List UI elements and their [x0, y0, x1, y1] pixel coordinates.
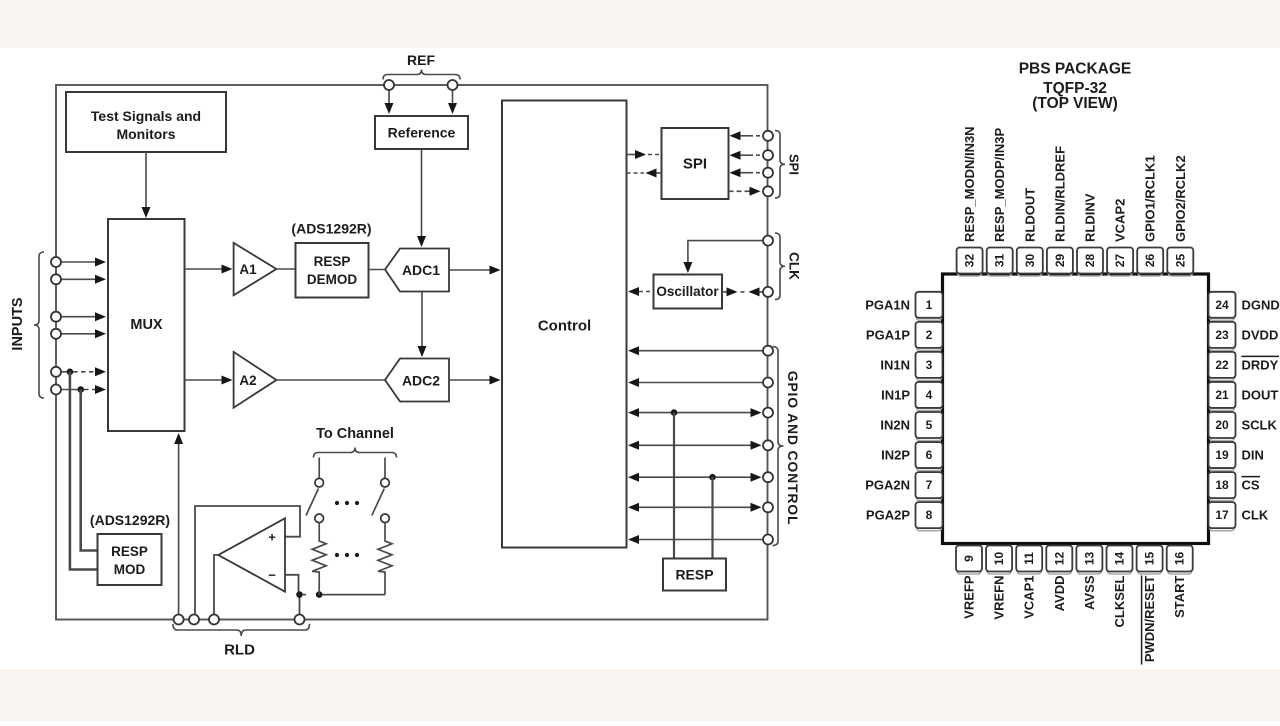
RLD pin circle 3	[209, 615, 219, 625]
pin 28 RLDINV	[1077, 193, 1103, 276]
svg-text:DRDY: DRDY	[1242, 357, 1279, 372]
svg-text:MUX: MUX	[130, 317, 163, 333]
svg-text:5: 5	[926, 418, 933, 432]
junction dot GPIO row5	[709, 474, 716, 481]
junction dot GPIO row3	[671, 409, 678, 416]
svg-text:24: 24	[1215, 298, 1229, 312]
pin 4 IN1P	[881, 382, 942, 411]
wire GPIO/control row 1	[628, 346, 773, 356]
input wire 4 into MUX	[51, 329, 106, 339]
svg-text:2: 2	[926, 328, 933, 342]
block: RESP DEMOD	[296, 243, 369, 298]
input wire 1 into MUX	[51, 257, 106, 267]
wire GPIO/control row 4	[628, 440, 773, 450]
svg-text:RLDIN/RLDREF: RLDIN/RLDREF	[1052, 146, 1067, 242]
svg-text:28: 28	[1083, 254, 1097, 268]
switch S1 (left)	[306, 458, 324, 539]
wire RLD pin up to MUX with arrow	[174, 433, 183, 615]
svg-text:8: 8	[926, 508, 933, 522]
REF pin circle right	[448, 80, 458, 114]
svg-text:12: 12	[1052, 552, 1066, 566]
ellipsis between switches	[335, 501, 339, 505]
svg-text:1: 1	[926, 298, 933, 312]
svg-text:22: 22	[1215, 358, 1229, 372]
svg-text:A1: A1	[239, 262, 257, 277]
To Channel brace	[314, 448, 397, 458]
svg-text:MOD: MOD	[114, 562, 146, 577]
block: MUX	[108, 219, 185, 431]
pin 31 RESP_MODP/IN3P	[987, 128, 1013, 276]
svg-text:VREFN: VREFN	[992, 576, 1007, 620]
svg-text:IN2N: IN2N	[880, 418, 910, 433]
pin 32 RESP_MODN/IN3N	[957, 126, 983, 276]
svg-text:RESP: RESP	[314, 254, 351, 269]
ADC1 converter	[385, 249, 449, 292]
svg-text:RESP: RESP	[675, 567, 713, 583]
svg-text:PGA1N: PGA1N	[865, 297, 910, 312]
block: RESP	[663, 559, 726, 591]
svg-text:ADC2: ADC2	[402, 373, 440, 389]
svg-text:AVDD: AVDD	[1052, 576, 1067, 612]
svg-text:PWDN/RESET: PWDN/RESET	[1142, 575, 1157, 662]
switch S2 (right)	[372, 458, 390, 539]
RLD pin circle 4	[295, 615, 305, 625]
pin 26 GPIO1/RCLK1	[1137, 155, 1163, 276]
svg-text:(TOP VIEW): (TOP VIEW)	[1032, 95, 1118, 112]
pin 5 IN2N	[880, 412, 942, 441]
svg-text:A2: A2	[239, 373, 256, 388]
wire CLK pin to Oscillator with arrow	[683, 236, 773, 273]
wire inverting node down to RLD pin	[299, 595, 301, 615]
pin 6 IN2P	[881, 442, 942, 471]
input wire 5 (dashed, junction) into MUX	[51, 367, 106, 377]
pin 8 PGA2P	[866, 502, 943, 531]
svg-text:AVSS: AVSS	[1082, 575, 1097, 610]
brace under REF	[383, 70, 460, 80]
right resistor lead	[384, 575, 386, 595]
svg-text:RLD: RLD	[224, 642, 255, 659]
svg-text:4: 4	[926, 388, 933, 402]
pin 23 DVDD	[1209, 322, 1279, 351]
wire input6 junction to RESP MOD	[81, 390, 98, 551]
op-amp U1 (RLD amplifier)	[218, 518, 285, 591]
input wire 6 (dashed, junction) into MUX	[51, 385, 106, 395]
pin 14 CLKSEL	[1107, 546, 1133, 628]
svg-text:CS: CS	[1242, 478, 1260, 493]
wire GPIO/control row 7	[628, 535, 773, 545]
pin 24 DGND	[1209, 292, 1280, 321]
svg-text:27: 27	[1113, 254, 1127, 268]
ADC2 converter	[385, 359, 449, 402]
svg-text:3: 3	[926, 358, 933, 372]
outer device boundary box	[56, 85, 768, 620]
svg-text:6: 6	[926, 448, 933, 462]
bottom margin band	[0, 669, 1280, 721]
input wire 3 into MUX	[51, 312, 106, 322]
op-amp A2	[234, 352, 277, 408]
pin 17 CLK	[1209, 502, 1269, 531]
svg-text:19: 19	[1215, 448, 1229, 462]
wire MUX to A1 with arrow	[185, 265, 233, 274]
SPI brace	[775, 131, 785, 199]
RLD op-amp inverting input wire	[285, 575, 300, 595]
input wire 2 into MUX	[51, 274, 106, 284]
dashed wire Oscillator to CLK pin (bidir)	[722, 287, 773, 297]
svg-text:14: 14	[1113, 552, 1127, 566]
pin 2 PGA1P	[866, 322, 943, 351]
svg-text:CLK: CLK	[1242, 508, 1269, 523]
pin 15 PWDN/RESET	[1137, 546, 1163, 665]
svg-text:INPUTS: INPUTS	[10, 297, 26, 351]
pin 10 VREFN	[986, 546, 1012, 620]
pin 22 DRDY	[1209, 352, 1280, 381]
package title	[1019, 61, 1132, 113]
pin 3 IN1N	[880, 352, 942, 381]
wire GPIO/control row 6	[628, 502, 773, 512]
wire junction row5 to RESP	[711, 477, 713, 558]
svg-text:PGA1P: PGA1P	[866, 327, 910, 342]
svg-text:23: 23	[1215, 328, 1229, 342]
svg-text:PGA2P: PGA2P	[866, 508, 910, 523]
svg-text:Control: Control	[538, 318, 591, 335]
svg-text:DVDD: DVDD	[1242, 327, 1279, 342]
svg-text:20: 20	[1215, 418, 1229, 432]
wire Test Signals to MUX with arrow	[142, 152, 151, 218]
GPIO AND CONTROL brace	[773, 347, 784, 546]
junction dot right rail	[316, 591, 323, 598]
svg-text:7: 7	[926, 478, 933, 492]
svg-text:Test Signals and: Test Signals and	[91, 108, 201, 124]
feedback resistor bottom rail with dashed gap	[303, 594, 385, 596]
svg-text:13: 13	[1082, 552, 1096, 566]
pin 19 DIN	[1209, 442, 1264, 471]
svg-text:VREFP: VREFP	[962, 575, 977, 619]
pin 1 PGA1N	[865, 292, 942, 321]
wire ADC2 to Control with arrow	[449, 376, 501, 385]
INPUTS brace	[34, 252, 44, 398]
pin 13 AVSS	[1076, 546, 1102, 610]
pin 27 VCAP2	[1107, 199, 1133, 276]
block: SPI	[662, 128, 729, 199]
wire GPIO/control row 5	[628, 472, 773, 482]
wire RESP DEMOD to ADC1	[369, 269, 386, 271]
svg-text:DIN: DIN	[1242, 448, 1264, 463]
svg-text:GPIO1/RCLK1: GPIO1/RCLK1	[1143, 155, 1158, 242]
wire ADC1 to ADC2	[418, 292, 427, 358]
wire GPIO/control row 2	[628, 378, 773, 388]
pin 18 CS	[1209, 472, 1261, 501]
svg-text:CLKSEL: CLKSEL	[1112, 575, 1127, 627]
svg-text:IN1P: IN1P	[881, 387, 910, 402]
wire SPI pin row 3 (in)	[730, 168, 774, 178]
wire GPIO/control row 3	[628, 408, 773, 418]
svg-text:ADC1: ADC1	[402, 262, 440, 278]
block: Test Signals and Monitors	[66, 92, 226, 152]
wire junction row3 to RESP	[673, 413, 675, 559]
svg-text:VCAP2: VCAP2	[1113, 199, 1128, 242]
svg-text:SPI: SPI	[787, 154, 802, 175]
wire input5 junction to RESP MOD	[70, 372, 98, 570]
svg-text:GPIO AND CONTROL: GPIO AND CONTROL	[785, 371, 801, 526]
pin 21 DOUT	[1209, 382, 1279, 411]
RLD op-amp output wire	[214, 555, 218, 615]
wire SPI pin row 2 (in)	[730, 150, 774, 160]
svg-text:VCAP1: VCAP1	[1022, 576, 1037, 619]
svg-text:PBS PACKAGE: PBS PACKAGE	[1019, 61, 1132, 78]
svg-text:REF: REF	[407, 52, 435, 68]
pin 9 VREFP	[956, 546, 982, 619]
wire A1 to RESP DEMOD	[276, 268, 295, 270]
dashed wire Control to SPI (out)	[627, 150, 662, 159]
dashed wire SPI to Control (in)	[627, 169, 662, 178]
wire Reference to ADC1	[417, 149, 426, 247]
junction dot left rail	[296, 591, 303, 598]
svg-text:RLDINV: RLDINV	[1083, 193, 1098, 242]
pin 16 START	[1167, 546, 1193, 618]
block: Control	[502, 101, 627, 548]
wire SPI pin row 1 (in)	[730, 131, 774, 141]
pin 12 AVDD	[1046, 546, 1072, 612]
svg-text:21: 21	[1215, 388, 1229, 402]
svg-text:−: −	[268, 568, 276, 583]
svg-text:RESP: RESP	[111, 544, 148, 559]
svg-text:(ADS1292R): (ADS1292R)	[90, 512, 170, 528]
svg-text:(ADS1292R): (ADS1292R)	[291, 221, 371, 237]
ellipsis between resistors	[335, 553, 339, 557]
svg-text:DOUT: DOUT	[1242, 387, 1279, 402]
block: Oscillator	[654, 275, 723, 309]
dashed wire Oscillator to Control	[628, 287, 654, 296]
svg-text:30: 30	[1023, 254, 1037, 268]
pin 20 SCLK	[1209, 412, 1278, 441]
RLD pin circle 1	[174, 615, 184, 625]
wire ADC1 to Control with arrow	[449, 266, 501, 275]
CLK brace	[775, 233, 785, 300]
wire MUX to A2 with arrow	[185, 376, 233, 385]
block: Reference	[375, 116, 468, 149]
svg-text:DEMOD: DEMOD	[307, 272, 358, 287]
pin 25 GPIO2/RCLK2	[1167, 155, 1193, 276]
svg-text:Monitors: Monitors	[116, 126, 175, 142]
svg-text:IN2P: IN2P	[881, 448, 910, 463]
pin 11 VCAP1	[1016, 546, 1042, 619]
svg-text:Reference: Reference	[388, 125, 456, 141]
svg-text:16: 16	[1173, 552, 1187, 566]
svg-text:To Channel: To Channel	[316, 426, 394, 442]
pin 7 PGA2N	[865, 472, 942, 501]
svg-text:RESP_MODP/IN3P: RESP_MODP/IN3P	[992, 128, 1007, 242]
svg-text:31: 31	[993, 254, 1007, 268]
svg-text:GPIO2/RCLK2: GPIO2/RCLK2	[1173, 155, 1188, 242]
svg-text:DGND: DGND	[1242, 297, 1280, 312]
pin 30 RLDOUT	[1017, 188, 1043, 276]
svg-text:Oscillator: Oscillator	[656, 284, 719, 299]
block: RESP MOD	[98, 534, 162, 585]
pin 29 RLDIN/RLDREF	[1047, 146, 1073, 276]
svg-text:CLK: CLK	[787, 252, 802, 280]
RLD brace	[173, 624, 310, 636]
svg-text:IN1N: IN1N	[880, 357, 910, 372]
svg-text:32: 32	[963, 254, 977, 268]
svg-text:15: 15	[1143, 552, 1157, 566]
svg-text:9: 9	[962, 555, 976, 562]
resistor R1 (left)	[312, 538, 326, 575]
REF pin circle left	[384, 80, 394, 114]
svg-text:25: 25	[1173, 254, 1187, 268]
chip body TQFP-32	[943, 274, 1209, 544]
wire A2 to ADC2	[276, 379, 385, 381]
resistor R2 (right)	[378, 538, 392, 575]
RLD pin circle 2	[189, 615, 199, 625]
svg-text:PGA2N: PGA2N	[865, 478, 910, 493]
svg-text:SPI: SPI	[683, 156, 707, 173]
svg-text:18: 18	[1215, 478, 1229, 492]
op-amp A1	[234, 243, 277, 295]
svg-text:SCLK: SCLK	[1242, 418, 1278, 433]
svg-text:RESP_MODN/IN3N: RESP_MODN/IN3N	[962, 126, 977, 242]
wire SPI pin row 4 (out)	[729, 186, 774, 196]
svg-text:10: 10	[992, 552, 1006, 566]
svg-text:26: 26	[1143, 254, 1157, 268]
svg-text:17: 17	[1215, 508, 1229, 522]
top margin band	[0, 0, 1280, 48]
svg-text:+: +	[268, 530, 276, 545]
svg-text:11: 11	[1022, 552, 1036, 565]
RLD op-amp feedback wire (+ input loop)	[195, 506, 300, 615]
svg-text:29: 29	[1053, 254, 1067, 268]
svg-text:START: START	[1172, 575, 1187, 617]
svg-text:RLDOUT: RLDOUT	[1022, 188, 1037, 242]
left resistor lead	[318, 575, 320, 595]
